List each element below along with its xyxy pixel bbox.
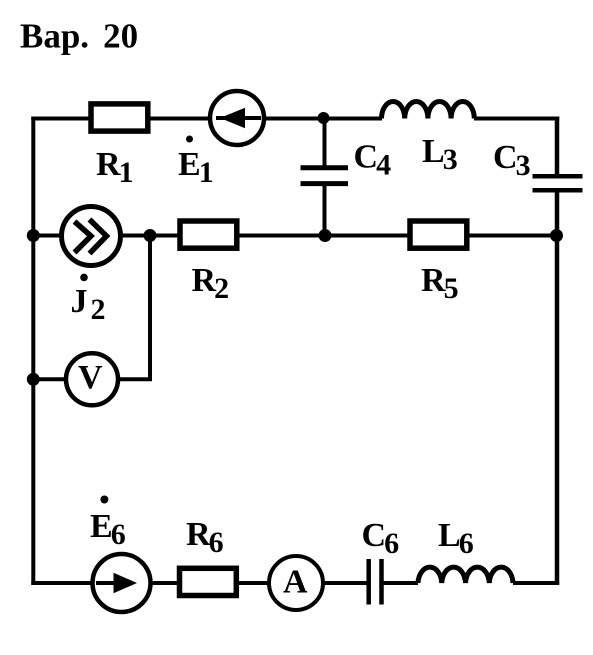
source E1 (circle with left arrow) <box>210 91 264 145</box>
svg-text:E6: E6 <box>90 508 126 551</box>
svg-text:E1: E1 <box>178 146 214 189</box>
wire C4 branch vertical lower <box>323 184 327 236</box>
wire left vertical <box>31 117 35 586</box>
node junction J2 right <box>144 229 157 242</box>
capacitor C6 <box>369 559 382 605</box>
capacitor C3 <box>533 176 583 190</box>
node junction left-voltmeter <box>27 373 40 386</box>
svg-text:C3: C3 <box>493 139 531 182</box>
wire top horizontal (left of L3) <box>31 117 382 121</box>
svg-text:L3: L3 <box>422 133 458 176</box>
current source J2 (circle with double chevron) <box>62 207 121 266</box>
wire middle horizontal <box>33 234 556 238</box>
source E6 (circle with right arrow) <box>93 554 151 612</box>
svg-text:R2: R2 <box>192 262 230 305</box>
wire voltmeter branch <box>33 236 150 380</box>
capacitor C4 <box>301 168 349 184</box>
label J2 with dot <box>71 274 106 326</box>
svg-text:V: V <box>78 359 103 396</box>
wire right vertical (below C3) <box>555 190 560 585</box>
wire C4 branch vertical upper <box>323 119 327 168</box>
wire right vertical (above C3) <box>555 117 560 178</box>
label E1 with dot <box>178 136 214 190</box>
svg-text:J2: J2 <box>71 283 106 326</box>
svg-text:R5: R5 <box>421 262 459 305</box>
inductor L3 <box>382 102 475 119</box>
node junction right-middle <box>550 229 563 242</box>
wire bottom horizontal (left of C6) <box>31 581 367 585</box>
wire bottom horizontal (right of L6) <box>513 581 559 585</box>
resistor R1 <box>91 104 148 131</box>
wire top horizontal (right of L3) <box>474 117 559 121</box>
node junction top C4 <box>318 112 330 124</box>
wire bottom horizontal (C6 to L6) <box>384 581 419 585</box>
label E6 with dot <box>90 496 126 552</box>
svg-text:A: A <box>283 564 308 601</box>
voltmeter V <box>66 353 118 405</box>
svg-text:L6: L6 <box>438 517 474 560</box>
svg-text:Вар.20: Вар.20 <box>20 17 138 56</box>
node junction left-middle <box>27 229 40 242</box>
svg-text:C4: C4 <box>354 139 392 182</box>
resistor R6 <box>180 568 237 595</box>
ammeter A <box>269 556 323 610</box>
svg-text:R1: R1 <box>96 146 134 189</box>
svg-text:C6: C6 <box>362 517 400 560</box>
resistor R2 <box>180 221 237 248</box>
svg-text:R6: R6 <box>186 516 224 559</box>
resistor R5 <box>410 221 467 248</box>
node junction middle C4 <box>319 229 332 242</box>
inductor L6 <box>418 567 513 583</box>
